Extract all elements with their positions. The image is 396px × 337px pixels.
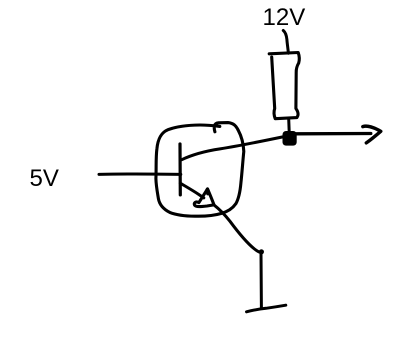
wire: 5V input to base of Q1: [99, 173, 181, 176]
wire: resistor R1 to collector node: [287, 119, 291, 132]
transistor Q1 emitter lead (bar to arrowhead): [180, 183, 204, 198]
wire: vertical drop to ground: [260, 253, 263, 308]
wire: 12V supply lead down to resistor R1: [283, 31, 288, 54]
resistor R1 (collector pull-up, hand-drawn rectangle): [269, 53, 299, 119]
transistor Q1 base bar: [178, 144, 182, 195]
wire: emitter down to vertical drop (diagonal): [214, 205, 261, 253]
svg-text:5V: 5V: [30, 165, 59, 192]
transistor Q1 emitter arrowhead (hand-drawn loop triangle): [194, 188, 214, 206]
transistor Q1 (NPN, hand-drawn circle outline): [156, 123, 244, 217]
ground (hand-drawn bar): [247, 305, 286, 312]
wire: collector node to output (horizontal): [296, 132, 371, 136]
output arrowhead: [363, 126, 381, 143]
node: collector junction dot: [283, 131, 297, 146]
node: emitter wire bend dot: [259, 249, 264, 254]
svg-text:12V: 12V: [263, 4, 306, 31]
transistor Q1 collector lead (to junction node): [182, 136, 288, 160]
